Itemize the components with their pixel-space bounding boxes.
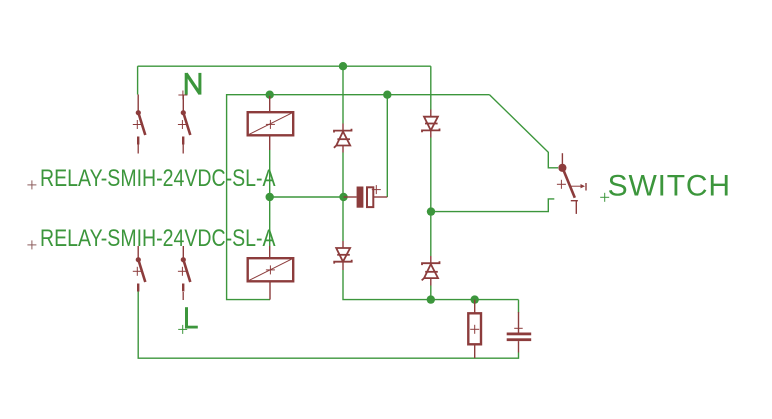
wire between coil1 bottom and coil2 top	[269, 150, 271, 246]
wire mid vertical x343 upper	[342, 66, 344, 123]
wire cap2 top drop	[518, 300, 520, 313]
wire switch lower throw run	[431, 199, 554, 212]
wire right vertical x431 middle	[430, 138, 432, 257]
node second-rail K1 junction	[266, 91, 274, 99]
wire right vertical x431 upper	[430, 66, 432, 109]
diode D2 zener down	[422, 110, 440, 138]
wire mid vertical x343 lower + bottom run to cap2	[343, 270, 519, 300]
diode D4 zener up	[422, 256, 440, 286]
node second-rail cap junction	[383, 91, 391, 99]
node mid rail right junction	[339, 193, 347, 201]
wire diagonal to switch	[490, 95, 559, 168]
node top-rail junction	[339, 62, 347, 70]
resistor R1	[468, 300, 481, 359]
label RELAY2 origin cross	[27, 240, 36, 249]
node bottom rail diode junction	[427, 295, 435, 303]
label SWITCH origin cross	[600, 193, 609, 202]
capacitor C1 electrolytic	[344, 185, 388, 208]
wire right vertical x431 lower	[430, 286, 432, 300]
relay coil K2	[248, 246, 294, 300]
label net L	[185, 307, 198, 328]
wire top rail N	[138, 65, 431, 67]
label net N	[186, 73, 200, 95]
relay coil K1	[248, 96, 294, 150]
svg-text:RELAY-SMIH-24VDC-SL-A: RELAY-SMIH-24VDC-SL-A	[40, 165, 276, 192]
diode D1 zener up	[334, 124, 352, 153]
label net L origin cross	[178, 325, 187, 334]
wire mid horizontal cap1 rail	[270, 196, 344, 198]
switch S5	[557, 153, 586, 214]
svg-text:SWITCH: SWITCH	[608, 170, 731, 203]
wire second rail	[227, 94, 490, 96]
contact S1 relay1 NO contact	[133, 95, 146, 154]
contact S2 relay2 NO contact	[178, 91, 190, 154]
svg-text:RELAY-SMIH-24VDC-SL-A: RELAY-SMIH-24VDC-SL-A	[40, 225, 276, 252]
wire left box vertical	[227, 95, 270, 300]
label RELAY1 origin cross	[27, 180, 36, 189]
node bottom rail resistor junction	[471, 295, 479, 303]
node x431 switch-run junction	[427, 207, 435, 215]
wire mid vertical x343 middle	[342, 153, 344, 242]
contact S4 relay2 second contact	[178, 246, 190, 300]
wire left drop to contact S1	[137, 66, 139, 94]
capacitor C2	[507, 312, 532, 353]
diode D3 zener down	[334, 241, 352, 270]
node mid rail left junction	[266, 193, 274, 201]
wire bottom rail	[138, 290, 518, 358]
wire cap1 right vertical	[386, 95, 388, 197]
contact S3 relay1 second contact	[133, 246, 146, 292]
